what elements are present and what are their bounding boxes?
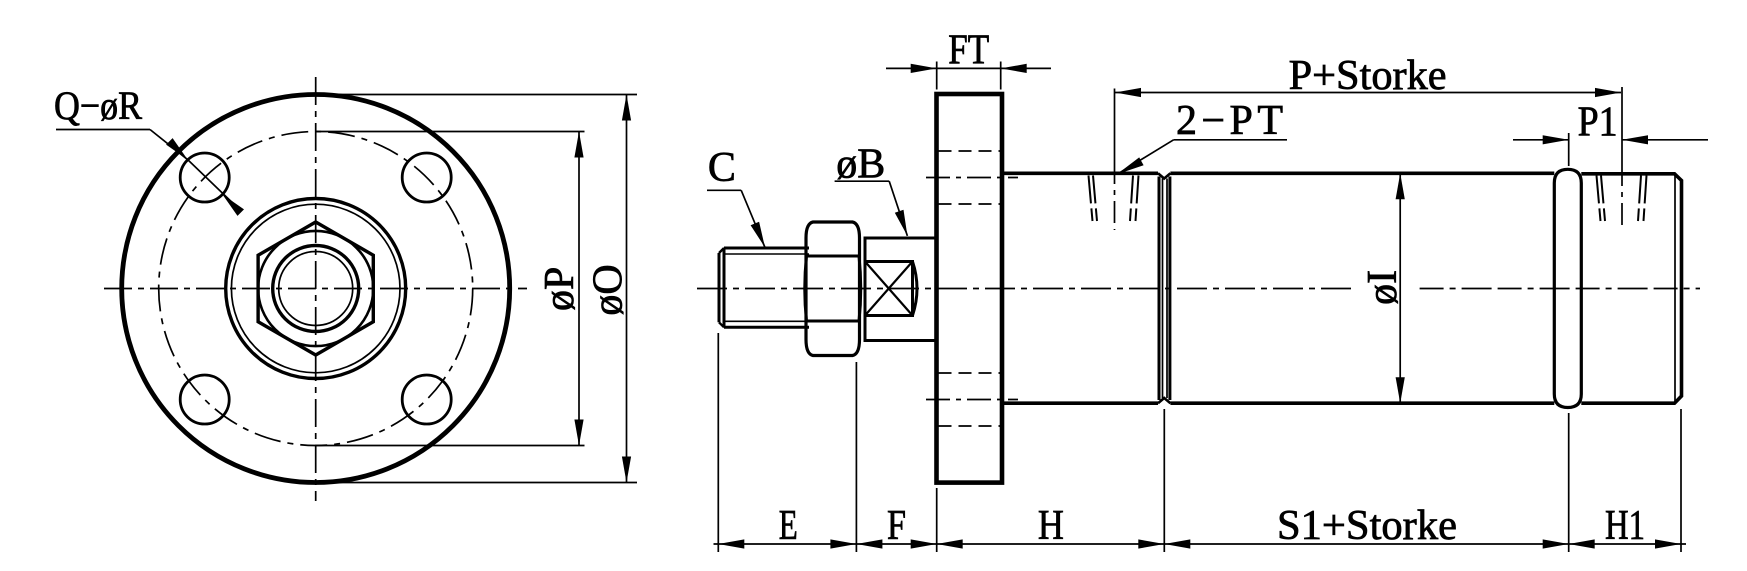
svg-text:P1: P1 bbox=[1578, 100, 1618, 146]
svg-text:2−PT: 2−PT bbox=[1176, 98, 1283, 144]
port 1 taper thread marks bbox=[1089, 176, 1139, 222]
bolt hole top-right bbox=[402, 153, 451, 202]
svg-text:øI: øI bbox=[1360, 270, 1406, 305]
label E bbox=[779, 503, 798, 549]
body section 3 outline bbox=[1581, 174, 1681, 403]
dimension FT extensions bbox=[937, 62, 1001, 90]
label FT bbox=[948, 28, 989, 74]
dimension oO arrow top bbox=[622, 95, 631, 121]
dimension FT arrows bbox=[911, 64, 1027, 73]
wrench flat square bbox=[865, 262, 913, 316]
label F bbox=[887, 503, 906, 549]
rod end circle bbox=[273, 246, 359, 332]
port 2 taper thread marks bbox=[1597, 176, 1647, 222]
svg-text:øP: øP bbox=[537, 267, 583, 311]
flange hole top hidden lines bbox=[939, 151, 1001, 204]
rod boss block bbox=[865, 238, 937, 341]
dimension oP extension bottom bbox=[315, 445, 585, 447]
dimension oO line bbox=[626, 95, 628, 483]
dimension oO arrow bottom bbox=[622, 457, 631, 483]
label oP rotated bbox=[537, 267, 583, 311]
svg-text:S1+Storke: S1+Storke bbox=[1277, 503, 1457, 549]
left view vertical center line bbox=[315, 77, 317, 501]
leader arrowhead lower bbox=[222, 194, 244, 216]
svg-text:F: F bbox=[887, 503, 906, 549]
label H1 bbox=[1605, 503, 1645, 549]
dimension oP line bbox=[578, 132, 580, 446]
dimension P+Storke line bbox=[1115, 92, 1621, 94]
bolt circle (dash-dot) bbox=[159, 132, 473, 446]
label 2-PT bbox=[1176, 98, 1283, 144]
side view center line bbox=[697, 288, 1700, 290]
wrench flat cross bbox=[865, 262, 913, 316]
left view horizontal center line bbox=[104, 288, 527, 290]
label oB bbox=[836, 142, 885, 188]
body section 2 outline bbox=[1170, 173, 1554, 403]
port 1 center line bbox=[1114, 89, 1116, 231]
flange hole top center line bbox=[926, 177, 1018, 179]
label P+Storke bbox=[1289, 53, 1447, 99]
rod thread minor circle bbox=[279, 252, 353, 326]
label Q-oR leader underline bbox=[56, 129, 150, 131]
bolt hole bottom-left bbox=[180, 375, 229, 424]
dimension oI line bbox=[1399, 173, 1401, 403]
dimension oO extension top bbox=[330, 94, 637, 96]
dimension P+Storke arrows bbox=[1115, 88, 1621, 97]
groove V notches bbox=[1158, 173, 1170, 403]
stop ring capsule bbox=[1554, 169, 1581, 407]
hex nut front view bbox=[258, 222, 373, 355]
flange hole bottom hidden lines bbox=[939, 373, 1001, 426]
body section 1 outline bbox=[1002, 173, 1159, 403]
bottom extension lines bbox=[718, 333, 1681, 552]
center boss chamfer circle bbox=[231, 204, 400, 373]
bolt hole bottom-right bbox=[402, 375, 451, 424]
center boss outer circle bbox=[226, 199, 406, 379]
port 2 center line bbox=[1621, 87, 1623, 231]
dimension oO extension bottom bbox=[316, 482, 637, 484]
svg-text:C: C bbox=[708, 145, 736, 191]
dimension P1 lines bbox=[1513, 139, 1708, 141]
label H bbox=[1038, 503, 1064, 549]
leader arrowhead upper bbox=[166, 138, 188, 160]
dimension oP extension top bbox=[316, 131, 585, 133]
svg-text:P+Storke: P+Storke bbox=[1289, 53, 1447, 99]
flange hole bottom center line bbox=[926, 399, 1018, 401]
flange outer circle bbox=[122, 95, 510, 483]
svg-text:Q−øR: Q−øR bbox=[54, 83, 142, 128]
label Q-oR leader line bbox=[150, 130, 241, 212]
threaded rod C bbox=[719, 248, 809, 327]
label C underline and leader bbox=[707, 190, 765, 247]
svg-text:H: H bbox=[1038, 503, 1064, 549]
flange side view bbox=[937, 94, 1003, 483]
label Q-oR bbox=[54, 83, 142, 128]
label oO rotated bbox=[586, 264, 632, 315]
dimension oP arrow bottom bbox=[574, 420, 583, 446]
hex inscribed circle bbox=[258, 231, 373, 346]
dimension P1 extension bbox=[1568, 133, 1570, 166]
wrench flat arc bbox=[913, 262, 918, 316]
hex nut side view bbox=[805, 222, 861, 356]
dimension FT line bbox=[886, 67, 1051, 69]
dimension P1 arrows bbox=[1543, 135, 1648, 144]
label oB underline and leader bbox=[835, 181, 908, 236]
label P1 bbox=[1578, 100, 1618, 146]
svg-text:øB: øB bbox=[836, 142, 885, 188]
label 2-PT underline and leader bbox=[1117, 140, 1287, 175]
label C bbox=[708, 145, 736, 191]
groove thin lines bbox=[1163, 179, 1168, 399]
bottom dimension line bbox=[714, 543, 1687, 545]
svg-text:E: E bbox=[779, 503, 798, 549]
dimension oP arrow top bbox=[574, 132, 583, 158]
bottom dimension arrows bbox=[718, 539, 1681, 548]
dimension oI arrows bbox=[1396, 173, 1405, 403]
label oI rotated bbox=[1360, 270, 1406, 305]
svg-text:FT: FT bbox=[948, 28, 989, 74]
svg-text:øO: øO bbox=[586, 264, 632, 315]
bolt hole top-left bbox=[180, 153, 229, 202]
svg-text:H1: H1 bbox=[1605, 503, 1645, 549]
label S1+Storke bbox=[1277, 503, 1457, 549]
